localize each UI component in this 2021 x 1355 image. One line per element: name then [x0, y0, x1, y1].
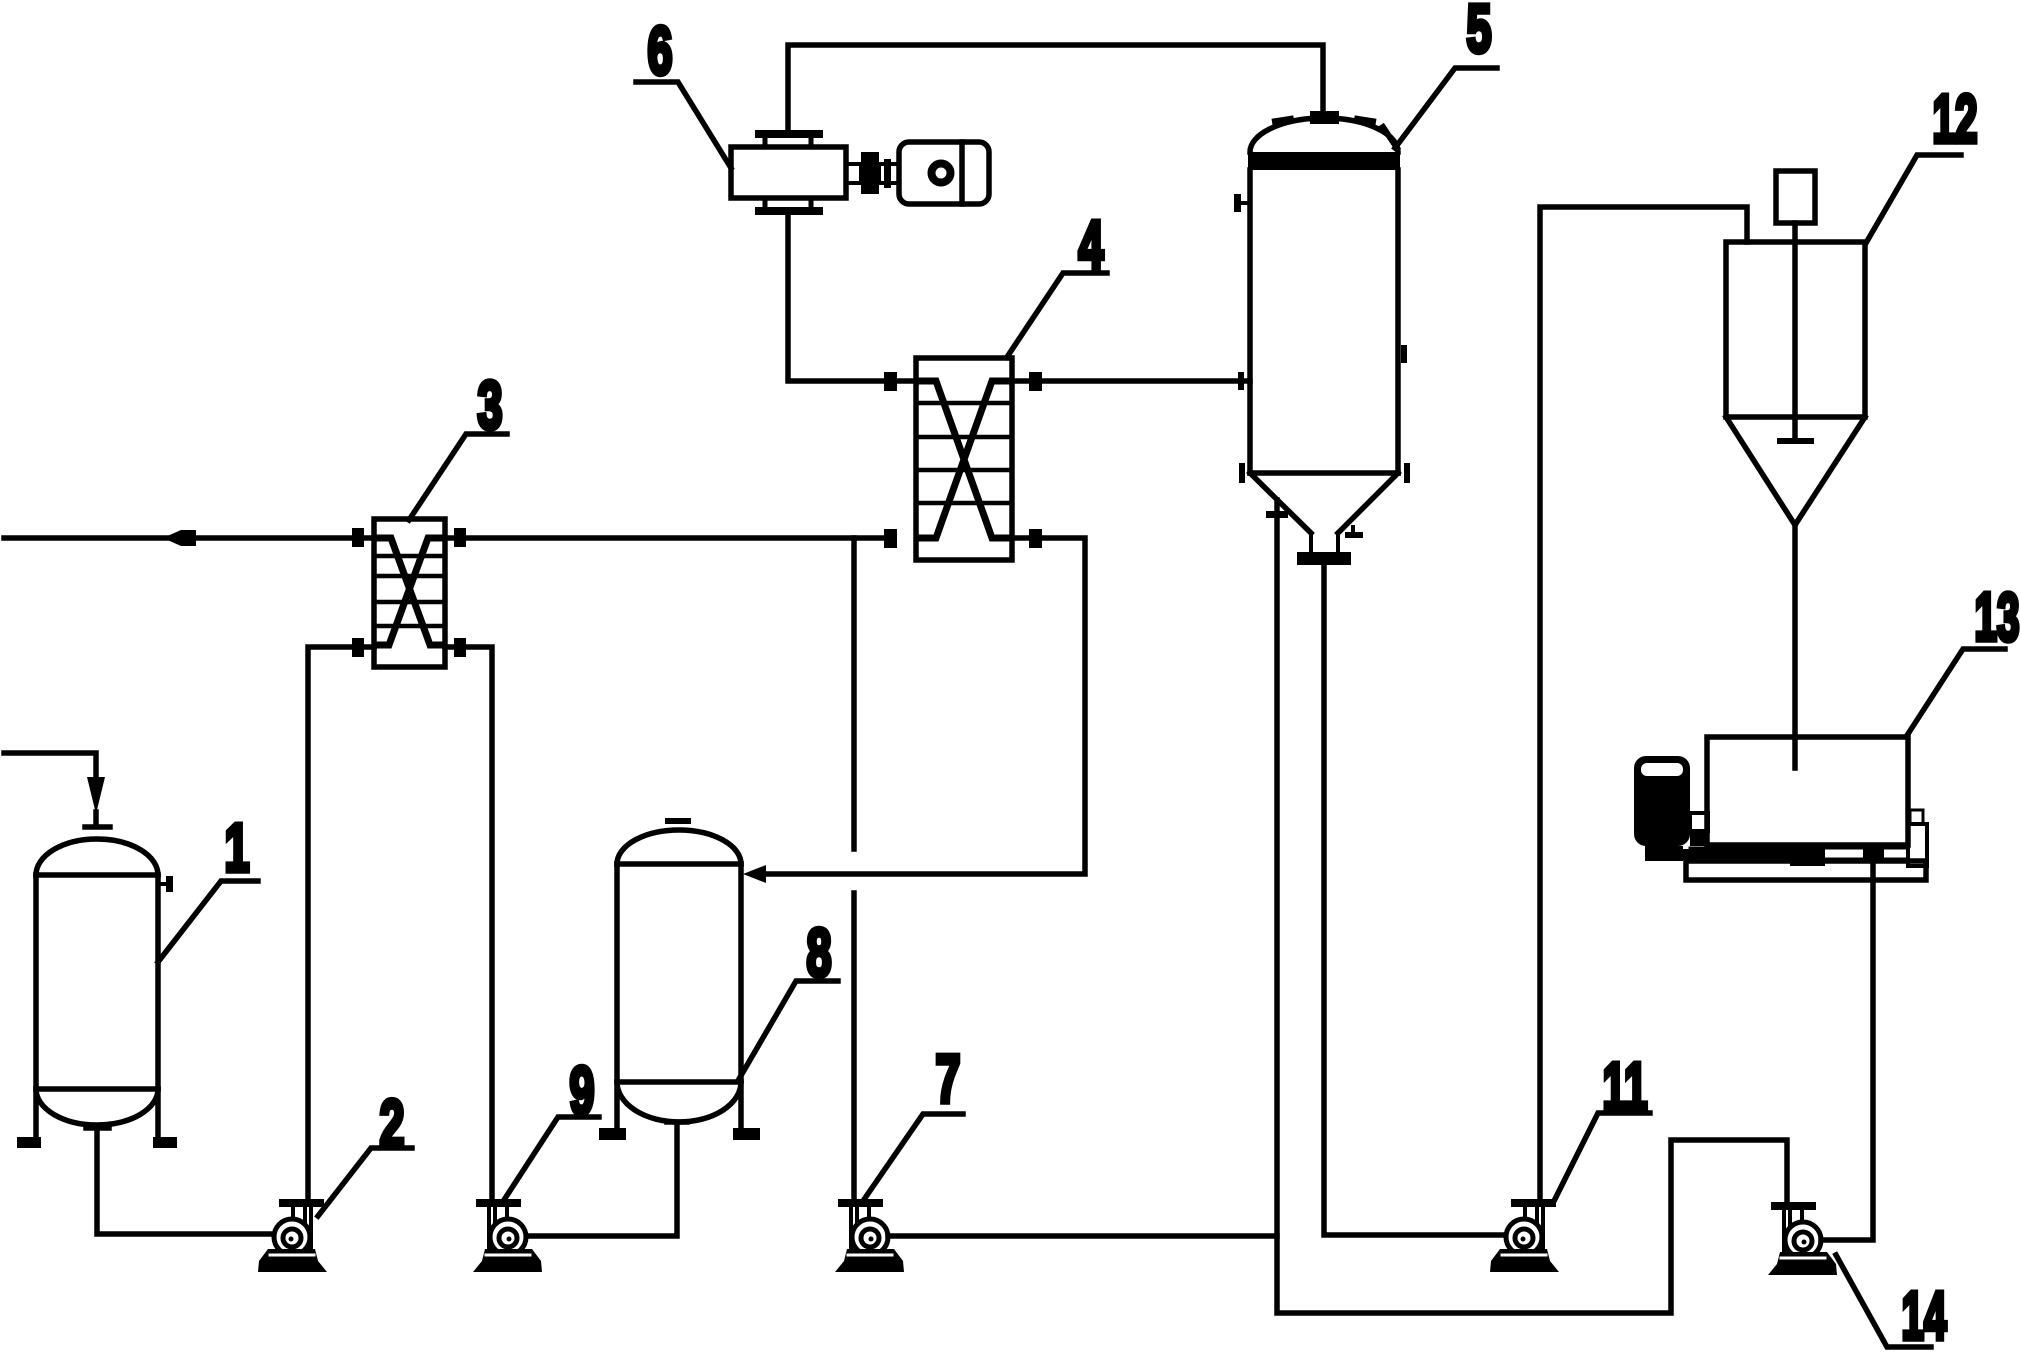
nozzle on vessel 5 cone right — [1345, 527, 1363, 538]
pump 2 — [258, 1199, 327, 1272]
svg-text:4: 4 — [1079, 207, 1104, 283]
svg-text:6: 6 — [648, 13, 673, 89]
arrow into vessel 8 — [743, 865, 766, 883]
wire: device 6 top to vessel 5 top — [788, 45, 1323, 130]
flange ports of HX4 — [884, 372, 1042, 548]
tank 13 — [1707, 737, 1908, 845]
svg-text:12: 12 — [1933, 81, 1978, 157]
motor of tank 13 — [1634, 756, 1708, 861]
leader line 6 — [636, 82, 731, 168]
leader line 11 — [1553, 1113, 1650, 1203]
vessel 8 top nozzle — [668, 818, 688, 824]
pump 9 — [473, 1199, 542, 1272]
flange tick on cone side pipe — [1266, 511, 1288, 518]
leader line 5 — [1395, 68, 1497, 148]
wire: HX3 bottom-left to pump 2 — [308, 647, 374, 1199]
wire: HX4 bottom-right to vessel 8 — [765, 538, 1085, 874]
svg-text:9: 9 — [570, 1053, 595, 1129]
nozzle on vessel 5 left wall upper — [1234, 194, 1250, 212]
vessel 5 — [1248, 111, 1400, 565]
wire: pump 11 discharge to vessel 12 — [1540, 207, 1747, 1199]
vessel 1 top nozzle flange — [85, 824, 110, 830]
flange ports of HX3 — [352, 528, 466, 657]
vessel 1 — [17, 839, 177, 1148]
svg-text:3: 3 — [478, 367, 503, 443]
leader line 2 — [318, 1148, 412, 1216]
flange ticks on vessel 5 dome — [1272, 115, 1377, 126]
feed arrow into vessel 1 — [87, 777, 105, 814]
svg-text:13: 13 — [1975, 579, 2020, 655]
wire: HX4 top-right to vessel 5 — [1012, 378, 1250, 384]
svg-text:5: 5 — [1467, 0, 1492, 67]
nozzle on vessel 1 right shoulder — [158, 876, 173, 892]
heat exchanger 4 — [916, 358, 1012, 560]
leader line 13 — [1906, 649, 2005, 737]
nozzle mark on vessel 5 dome right — [1383, 127, 1397, 148]
vessel 12 — [1726, 242, 1865, 525]
vessel 8 bottom nozzle flange — [667, 1119, 687, 1125]
wire: HX3 bottom-right to pump 9 — [445, 647, 492, 1199]
pump 11 — [1490, 1199, 1559, 1272]
leader line 9 — [502, 1117, 599, 1203]
svg-text:7: 7 — [936, 1041, 961, 1117]
wire: vessel 5 bottom outlet to pump 11 — [1324, 565, 1506, 1235]
bearing bracket of tank 13 — [1908, 810, 1927, 866]
pump 7 — [835, 1199, 904, 1272]
svg-text:1: 1 — [225, 810, 250, 886]
wire: device 6 bottom to HX4 top-left — [788, 215, 916, 381]
wire: main product line y538 — [4, 535, 884, 541]
svg-text:8: 8 — [807, 915, 832, 991]
vessel 1 bottom nozzle flange — [86, 1125, 109, 1131]
pump 14 — [1768, 1202, 1837, 1275]
screw conveyor of tank 13 — [1683, 843, 1908, 866]
flange tick at vessel 5 inlet — [1238, 372, 1244, 390]
heat exchanger 3 — [374, 519, 445, 667]
agitator of vessel 12 — [1776, 171, 1815, 441]
wire: pump 7 discharge to cone line — [888, 1233, 1277, 1239]
wire: vessel 1 bottom to pump 2 — [97, 1128, 276, 1234]
wire: vessel 8 bottom to pump 9 — [526, 1125, 677, 1236]
wire: vessel 5 cone side to pump 14 — [1277, 500, 1787, 1313]
leader line 7 — [865, 1114, 963, 1198]
svg-text:11: 11 — [1603, 1049, 1648, 1125]
rotary feeder 6 — [731, 130, 846, 215]
leader line 4 — [1007, 273, 1107, 357]
leader line 14 — [1836, 1255, 1931, 1347]
corner ticks at vessel 5 cone joint — [1239, 463, 1410, 483]
leader line 1 — [158, 881, 258, 962]
vessel 8 — [599, 830, 760, 1140]
arrow on product line (pointing left) — [163, 530, 196, 546]
wire: feed line into vessel 1 — [4, 753, 96, 826]
nozzle tick on vessel 5 right wall — [1401, 345, 1407, 363]
leader line 8 — [739, 981, 838, 1079]
wire: pump 14 discharge to tank 13 — [1821, 864, 1873, 1240]
motor of device 6 — [899, 142, 989, 204]
svg-text:2: 2 — [380, 1086, 405, 1162]
leader line 12 — [1866, 155, 1961, 243]
stand of tank 13 — [1686, 861, 1926, 880]
wire: vessel 12 apex into tank 13 — [1792, 525, 1798, 768]
coupling of device 6 — [846, 152, 899, 194]
svg-text:14: 14 — [1902, 1278, 1947, 1354]
leader line 3 — [409, 434, 507, 520]
wire: main line junction to pump 7 (break at crossing) — [851, 538, 857, 1199]
